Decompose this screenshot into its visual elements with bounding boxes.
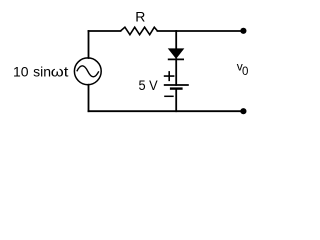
svg-text:5 V: 5 V (139, 77, 159, 93)
battery B1: short thick negative plate (170, 87, 183, 89)
svg-text:10: 10 (13, 64, 29, 80)
wire: left branch lower vertical (source down to bottom wire) (88, 85, 90, 112)
wire: bottom horizontal segment (89, 110, 244, 112)
label battery plus sign (164, 71, 175, 81)
svg-text:sin: sin (33, 64, 51, 80)
node: top output terminal dot (240, 28, 246, 34)
wire: top-left horizontal segment from source branch to resistor (89, 30, 121, 32)
wire: diode cathode down to battery positive plate (175, 59, 177, 85)
wire: top-right horizontal segment from resistor to output node (158, 30, 244, 32)
source V1: sine wave symbol (77, 66, 99, 77)
svg-text:0: 0 (242, 66, 248, 78)
node: bottom output terminal dot (240, 108, 246, 114)
label battery minus sign (164, 95, 174, 97)
diode D1: anode triangle (pointing down) (169, 49, 184, 58)
svg-text:R: R (135, 9, 145, 25)
svg-text:ωt: ωt (51, 64, 69, 80)
resistor R (zigzag) (121, 27, 158, 35)
wire: battery negative plate down to bottom wire (175, 89, 177, 111)
source V1: AC voltage source circle (74, 58, 101, 85)
diode D1: cathode bar (168, 58, 184, 60)
wire: left branch upper vertical (top wire down to source) (88, 31, 90, 58)
wire: middle branch from top wire down to diode (175, 31, 177, 50)
battery B1: long positive plate (164, 84, 189, 86)
